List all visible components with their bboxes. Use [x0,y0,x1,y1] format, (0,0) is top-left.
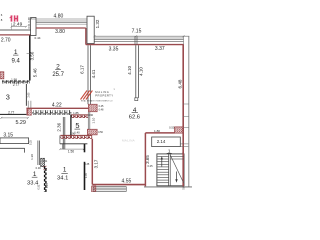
svg-text:3: 3 [6,93,10,102]
svg-text:5.29: 5.29 [15,120,26,126]
svg-text:4.10: 4.10 [127,65,132,74]
svg-text:7.15: 7.15 [132,29,142,35]
svg-text:1.05: 1.05 [85,172,88,177]
svg-text:6.48: 6.48 [178,79,183,88]
svg-text:9.4: 9.4 [12,58,21,64]
svg-text:3.80: 3.80 [55,29,65,35]
svg-text:0.50: 0.50 [169,126,175,130]
svg-text:1.80: 1.80 [154,129,160,133]
svg-text:3.65: 3.65 [145,155,150,164]
svg-text:0.35: 0.35 [84,163,89,166]
svg-text:0.25: 0.25 [46,182,49,187]
svg-text:2.49: 2.49 [13,21,23,27]
svg-text:1.10: 1.10 [91,117,95,123]
svg-text:1.56: 1.56 [68,150,74,154]
svg-text:34.1: 34.1 [57,175,68,181]
svg-text:3.35: 3.35 [109,47,119,53]
svg-text:6.17: 6.17 [80,65,85,74]
svg-text:5: 5 [75,121,79,130]
svg-text:1.32: 1.32 [95,19,100,28]
svg-text:4.10: 4.10 [139,67,144,76]
svg-text:4.55: 4.55 [122,179,132,185]
svg-text:0.90: 0.90 [88,113,94,117]
svg-text:0.50: 0.50 [98,131,103,134]
svg-text:2.77: 2.77 [13,83,19,87]
svg-text:4.22: 4.22 [52,102,62,108]
svg-text:0.51: 0.51 [27,23,31,29]
svg-text:1.30: 1.30 [30,154,34,160]
svg-text:3.37: 3.37 [155,46,165,52]
svg-text:0.30: 0.30 [36,166,42,170]
svg-text:3.56: 3.56 [30,51,35,60]
svg-text:2.60: 2.60 [27,92,30,97]
svg-text:PROPERTY: PROPERTY [95,94,113,98]
svg-text:2.70: 2.70 [1,38,11,44]
svg-text:4.41: 4.41 [91,69,96,78]
svg-text:2.14: 2.14 [157,139,166,144]
svg-text:REAL ESTATE INVESTMENT CO: REAL ESTATE INVESTMENT CO [81,99,113,102]
svg-text:5.46: 5.46 [32,68,37,77]
svg-text:1.90: 1.90 [70,131,76,135]
svg-text:62.6: 62.6 [129,115,140,121]
svg-text:1: 1 [63,167,67,174]
svg-text:MALINA: MALINA [122,139,135,143]
svg-text:3.17: 3.17 [93,159,98,168]
svg-text:™: ™ [114,88,116,91]
svg-text:2.77: 2.77 [8,110,14,114]
svg-text:2.36: 2.36 [57,122,62,131]
svg-text:1.85: 1.85 [73,111,79,115]
svg-text:4.80: 4.80 [54,13,64,19]
svg-text:33.4: 33.4 [27,180,39,186]
svg-text:0.48: 0.48 [99,109,104,112]
svg-text:0.25: 0.25 [30,139,33,144]
svg-text:25.7: 25.7 [52,72,64,78]
svg-text:0.44: 0.44 [34,36,40,40]
svg-text:1: 1 [168,148,171,153]
